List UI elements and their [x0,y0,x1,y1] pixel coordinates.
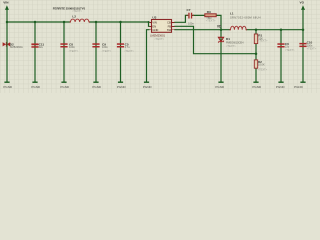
svg-text:PGND: PGND [143,85,153,89]
svg-text:<TEXT>: <TEXT> [72,9,82,13]
svg-text:<TEXT>: <TEXT> [206,18,216,22]
svg-text:<TEXT>: <TEXT> [258,39,268,43]
svg-text:U3: U3 [152,16,156,20]
svg-text:PGND: PGND [276,85,286,89]
svg-text:PMEG6010CEH: PMEG6010CEH [226,41,244,45]
svg-text:C7: C7 [187,8,191,12]
svg-text:SW: SW [167,28,172,32]
svg-text:<TEXT>: <TEXT> [102,49,112,53]
svg-text:VO: VO [300,0,305,4]
svg-text:R3: R3 [207,10,211,14]
svg-text:CB: CB [167,20,171,24]
svg-text:VIN: VIN [152,20,157,24]
svg-text:<TEXT>: <TEXT> [124,49,134,53]
svg-text:100n: 100n [102,45,108,49]
svg-text:<TEXT>: <TEXT> [154,37,164,41]
svg-text:<TEXT>: <TEXT> [226,44,236,48]
svg-text:<TEXT>: <TEXT> [258,68,268,72]
svg-text:L2: L2 [72,15,76,19]
svg-text:LMZM23601: LMZM23601 [150,33,165,37]
svg-text:<TEXT>: <TEXT> [285,48,295,52]
svg-text:PGND: PGND [92,85,102,89]
svg-text:FB: FB [168,24,172,28]
svg-text:PGND: PGND [215,85,225,89]
svg-text:<TEXT>: <TEXT> [69,49,79,53]
svg-text:22u: 22u [39,45,44,49]
svg-text:PGND: PGND [117,85,127,89]
svg-text:PGND: PGND [294,85,304,89]
svg-text:PGND: PGND [60,85,70,89]
svg-text:<TEXT>: <TEXT> [307,47,317,51]
svg-text:100n: 100n [188,21,194,25]
svg-text:L1: L1 [230,11,234,15]
svg-text:GND: GND [152,28,158,32]
svg-text:PGND: PGND [31,85,41,89]
svg-text:SMBJ260A: SMBJ260A [10,45,23,49]
svg-text:EN: EN [152,24,156,28]
svg-text:PGND: PGND [3,85,13,89]
svg-text:VD: VD [217,25,222,29]
svg-text:VIN: VIN [3,0,9,4]
svg-text:100n: 100n [69,45,75,49]
svg-text:SRN7032-680M 68UH: SRN7032-680M 68UH [230,15,261,19]
svg-text:10.0K: 10.0K [258,63,265,67]
svg-text:4.7u: 4.7u [125,45,131,49]
svg-text:PGND: PGND [252,85,262,89]
